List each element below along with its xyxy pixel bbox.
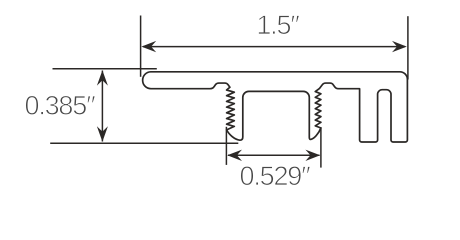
svg-text:0.529″: 0.529″ — [240, 161, 312, 191]
svg-text:1.5″: 1.5″ — [256, 10, 300, 40]
svg-text:0.385″: 0.385″ — [25, 90, 97, 120]
